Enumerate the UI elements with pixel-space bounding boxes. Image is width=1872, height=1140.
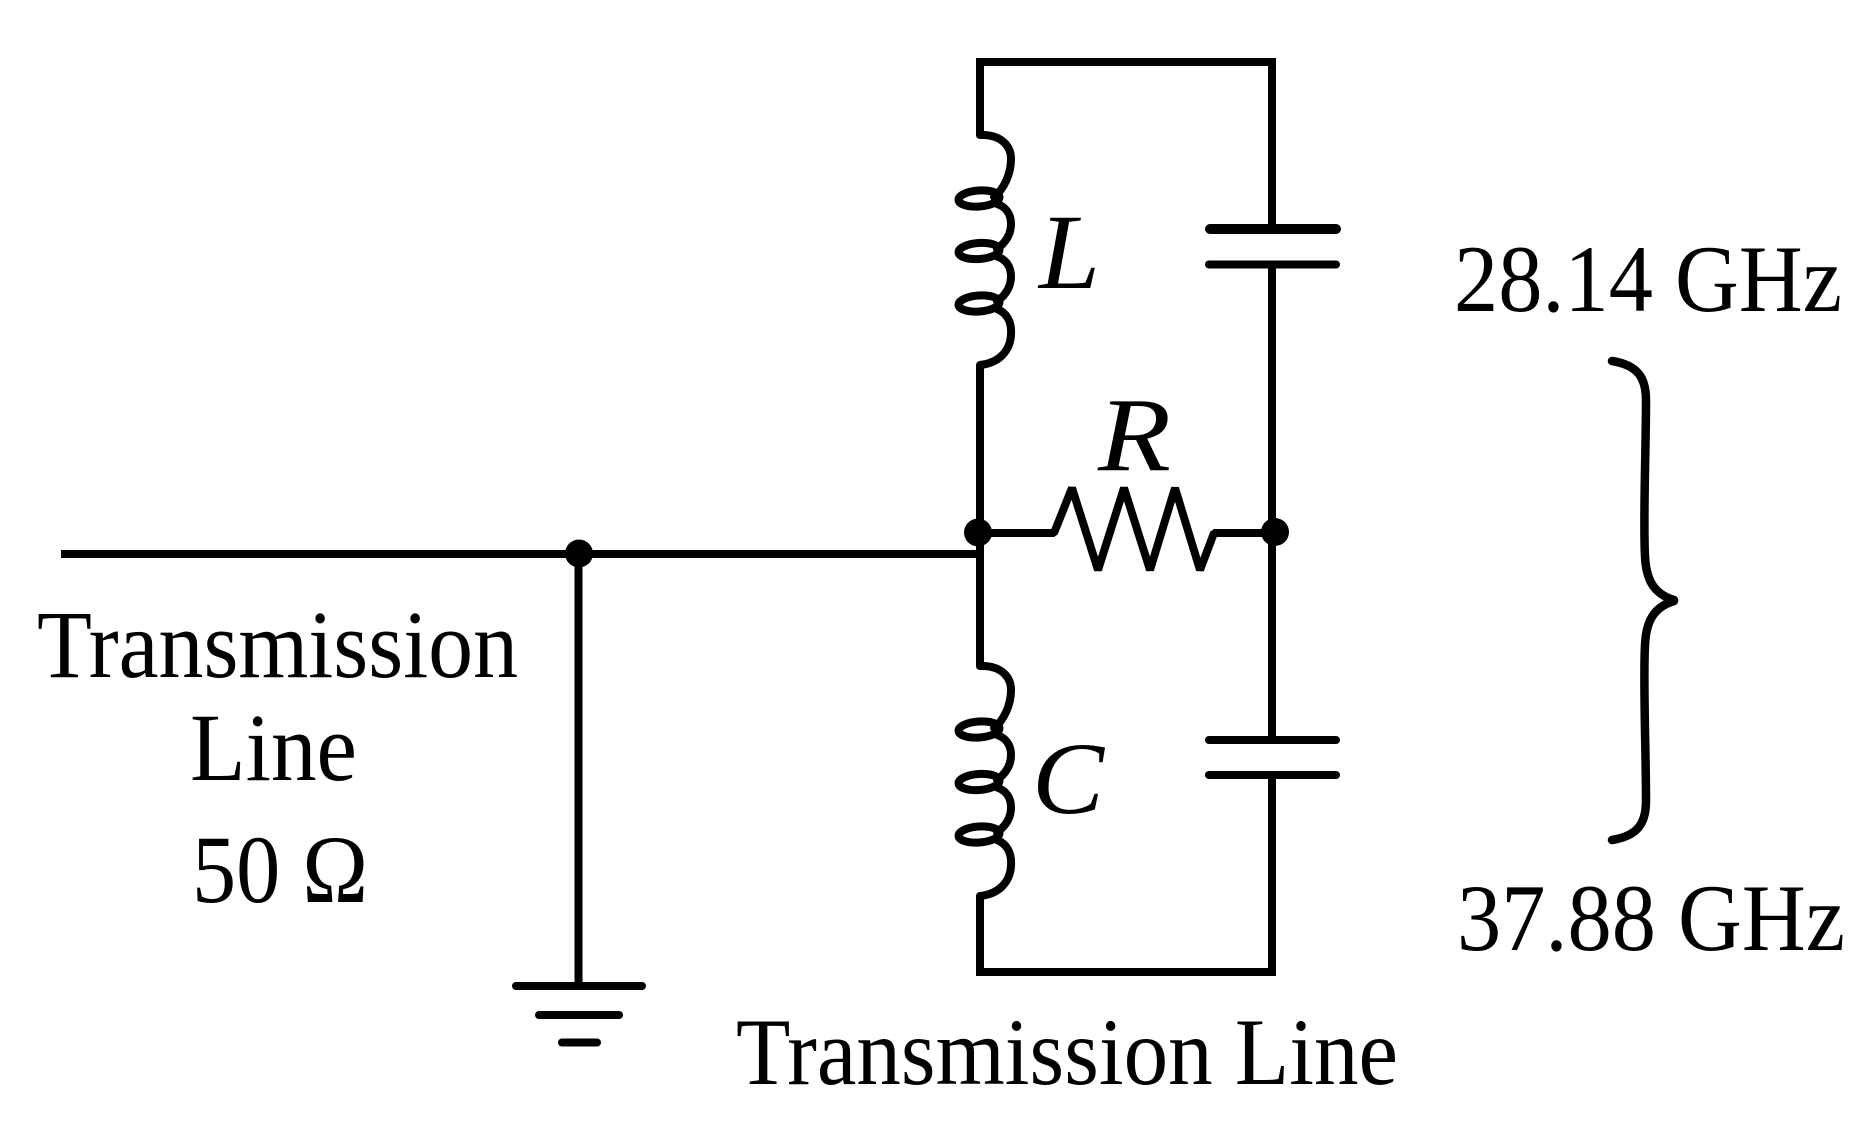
brace xyxy=(1612,361,1674,840)
capacitor C1 (top right) xyxy=(1209,229,1336,265)
svg-text:37.88 GHz: 37.88 GHz xyxy=(1457,865,1845,971)
node C junction dot right of resistor xyxy=(1261,518,1289,546)
ground xyxy=(516,986,642,1043)
wire top loop: left branch top, top wire, right branch to capacitor C1 xyxy=(980,62,1272,229)
svg-text:Transmission Line: Transmission Line xyxy=(736,999,1398,1105)
wire right branch middle segment xyxy=(1268,264,1276,740)
node A junction dot on main wire xyxy=(565,540,593,568)
inductor C (lower coil) xyxy=(958,666,1011,896)
svg-text:R: R xyxy=(1097,376,1171,493)
svg-text:Transmission: Transmission xyxy=(37,591,518,698)
node B junction dot left of resistor xyxy=(964,519,992,547)
svg-text:C: C xyxy=(1032,722,1105,836)
svg-text:L: L xyxy=(1037,194,1100,312)
svg-text:28.14 GHz: 28.14 GHz xyxy=(1454,226,1842,332)
wire left branch middle segment xyxy=(976,365,984,666)
resistor R xyxy=(978,488,1274,570)
wire bottom loop: left branch bottom, bottom wire, right branch up to capacitor C2 xyxy=(980,775,1272,972)
wire main horizontal from source xyxy=(61,550,982,558)
capacitor C2 (bottom right) xyxy=(1209,740,1336,775)
svg-text:Line: Line xyxy=(190,694,357,801)
inductor L xyxy=(958,135,1011,365)
wire ground stem xyxy=(575,553,583,986)
svg-text:50 Ω: 50 Ω xyxy=(192,816,368,923)
